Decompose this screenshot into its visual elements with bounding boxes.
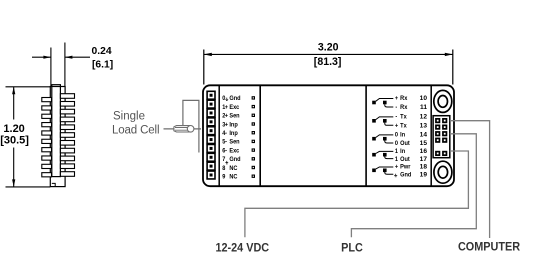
- switch symbol rows 14-15: [376, 135, 394, 143]
- wire to 12-24 VDC: [245, 151, 469, 237]
- dimension 3.20 extension lines: [204, 50, 453, 85]
- side view connector body: [50, 87, 65, 187]
- svg-text:18: 18: [420, 164, 428, 171]
- side view left pins: [42, 98, 52, 177]
- svg-text:+: +: [395, 163, 399, 171]
- right labels column: [395, 95, 412, 179]
- label Single Load Cell: [112, 110, 160, 136]
- svg-text:10: 10: [420, 95, 428, 102]
- svg-text:[30.5]: [30.5]: [0, 134, 29, 146]
- svg-text:Pwr: Pwr: [400, 163, 411, 171]
- svg-text:Rx: Rx: [400, 95, 408, 103]
- label PLC: [341, 242, 363, 254]
- svg-text:Sen: Sen: [229, 112, 240, 120]
- load cell connector: [174, 126, 194, 133]
- svg-text:+: +: [225, 121, 229, 129]
- svg-text:In: In: [400, 148, 405, 156]
- ground mark row 7: [225, 161, 228, 164]
- svg-text:-: -: [395, 113, 397, 121]
- svg-text:1: 1: [395, 148, 399, 156]
- ground mark row 0: [225, 98, 228, 101]
- svg-text:Rx: Rx: [400, 104, 408, 112]
- svg-text:12-24 VDC: 12-24 VDC: [215, 242, 269, 254]
- switch symbol rows 16-17: [376, 151, 394, 158]
- dimension 1.20 extension lines: [6, 87, 51, 187]
- right strip line: [430, 86, 432, 187]
- left strip line: [218, 86, 220, 187]
- svg-text:12: 12: [420, 114, 428, 121]
- svg-text:Single: Single: [113, 110, 145, 122]
- svg-text:[6.1]: [6.1]: [92, 59, 113, 70]
- left terminal squares 0-9: [207, 91, 215, 179]
- svg-text:15: 15: [420, 140, 428, 147]
- label 12-24 VDC: [215, 242, 269, 254]
- right divider line: [365, 86, 367, 187]
- label COMPUTER: [458, 241, 520, 253]
- left terminal square dots: [210, 94, 213, 177]
- right numbers column: [420, 95, 428, 178]
- dimension 3.20 line with arrows: [204, 53, 453, 56]
- svg-text:Tx: Tx: [400, 113, 407, 121]
- svg-text:19: 19: [420, 171, 428, 178]
- svg-text:0: 0: [395, 140, 399, 148]
- svg-text:Gnd: Gnd: [229, 95, 240, 103]
- side view right pins: [60, 94, 74, 177]
- svg-text:In: In: [400, 131, 405, 139]
- left row pin squares: [252, 96, 255, 178]
- svg-text:NC: NC: [229, 173, 238, 181]
- svg-text:Out: Out: [400, 140, 410, 148]
- svg-text:Exc: Exc: [229, 104, 240, 112]
- switch symbol rows 18-19: [376, 167, 394, 174]
- dimension 1.20 line with arrows: [12, 87, 15, 187]
- svg-text:3.20: 3.20: [318, 41, 339, 53]
- svg-text:13: 13: [420, 123, 428, 130]
- switch symbol rows 12-13: [376, 117, 394, 125]
- svg-text:+: +: [225, 104, 229, 112]
- svg-text:Inp: Inp: [229, 121, 238, 129]
- dimension text 1.20: [0, 123, 29, 146]
- side view bottom step: [52, 183, 55, 186]
- left row pin square dots: [253, 97, 254, 177]
- svg-text:0: 0: [222, 95, 226, 103]
- svg-text:0: 0: [395, 131, 399, 139]
- svg-text:17: 17: [420, 156, 428, 163]
- right terminal grid dots: [437, 120, 446, 155]
- svg-text:Out: Out: [400, 155, 410, 163]
- right terminal grid border: [433, 116, 450, 158]
- svg-text:COMPUTER: COMPUTER: [458, 241, 520, 253]
- svg-text:[81.3]: [81.3]: [314, 56, 342, 68]
- left labels column: [222, 95, 240, 181]
- dimension 0.24 extension lines: [51, 43, 65, 87]
- mounting hole bottom: [434, 161, 452, 183]
- load cell cable wire: [164, 128, 202, 130]
- wire to PLC: [351, 134, 476, 237]
- svg-text:1.20: 1.20: [3, 123, 24, 135]
- svg-text:PLC: PLC: [341, 242, 363, 254]
- svg-text:14: 14: [420, 132, 428, 139]
- svg-text:11: 11: [420, 104, 427, 111]
- wire to COMPUTER: [450, 121, 490, 238]
- svg-text:Load Cell: Load Cell: [112, 125, 160, 137]
- right terminal grid squares: [435, 118, 447, 156]
- svg-text:Inp: Inp: [229, 130, 238, 138]
- svg-text:+: +: [395, 122, 399, 130]
- svg-text:Tx: Tx: [400, 122, 407, 130]
- svg-text:+: +: [225, 112, 229, 120]
- side view inner body: [52, 85, 61, 177]
- svg-text:-: -: [225, 147, 227, 155]
- svg-text:0.24: 0.24: [92, 46, 112, 57]
- svg-text:9: 9: [222, 173, 226, 181]
- svg-text:Sen: Sen: [229, 138, 240, 146]
- load cell shield wires: [183, 100, 199, 152]
- svg-text:+: +: [395, 95, 399, 103]
- svg-text:Gnd: Gnd: [400, 171, 411, 179]
- svg-text:7: 7: [222, 156, 226, 164]
- ground mark row 19: [394, 174, 397, 177]
- svg-text:1: 1: [395, 155, 399, 163]
- switch symbol rows 10-11: [376, 99, 394, 108]
- svg-text:-: -: [395, 104, 397, 112]
- dimension 0.24 arrows: [32, 56, 90, 59]
- svg-text:NC: NC: [229, 164, 238, 172]
- dimension text 0.24: [92, 46, 114, 70]
- dimension text 3.20: [314, 41, 342, 68]
- svg-text:Gnd: Gnd: [229, 156, 240, 164]
- svg-text:8: 8: [222, 164, 226, 172]
- svg-text:16: 16: [420, 148, 428, 155]
- module outline: [203, 85, 454, 186]
- svg-text:-: -: [225, 138, 227, 146]
- svg-text:Exc: Exc: [229, 147, 240, 155]
- svg-text:-: -: [225, 130, 227, 138]
- left divider line: [259, 86, 261, 187]
- mounting hole top: [434, 90, 452, 112]
